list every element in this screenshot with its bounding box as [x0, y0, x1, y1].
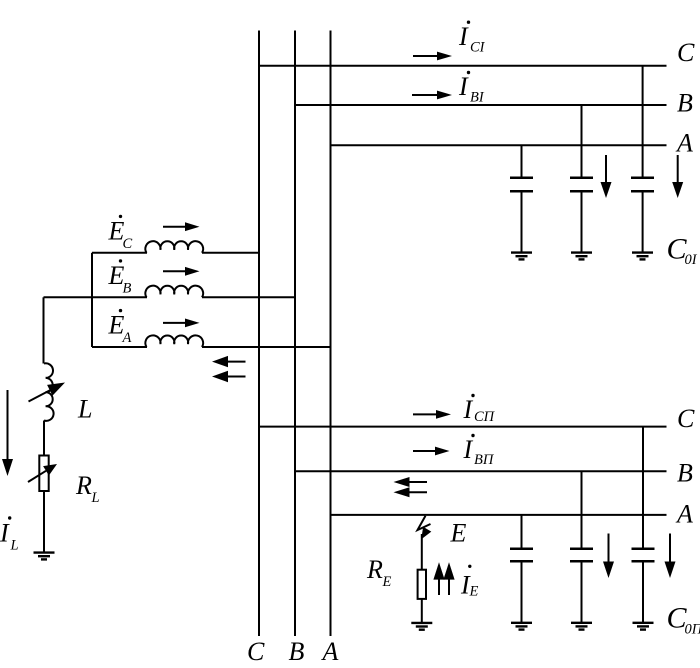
arrow current I_CI: [413, 52, 452, 61]
capacitor C0I phase C: [631, 66, 654, 252]
arrow return current upper (left-pointing, feeder II): [394, 477, 428, 487]
arrow capacitive current down (right of C cap, feeder II): [665, 534, 676, 579]
svg-text:A: A: [675, 500, 693, 529]
ground of capacitor C0II phase A: [511, 623, 532, 630]
wire phase B feeder II: [295, 470, 667, 472]
wire fault to resistor R_E: [421, 534, 423, 570]
resistor R_E: [418, 570, 426, 599]
svg-text:C: C: [677, 38, 695, 67]
svg-text:L: L: [91, 490, 100, 506]
svg-text:B: B: [123, 281, 132, 297]
svg-text:E: E: [382, 574, 392, 590]
wire phase A feeder I: [331, 144, 667, 146]
ground of capacitor C0I phase A: [511, 253, 532, 260]
svg-text:B: B: [677, 459, 693, 488]
svg-text:СП: СП: [474, 409, 496, 425]
label E_B: [108, 259, 132, 296]
svg-text:E: E: [450, 519, 467, 548]
resistor R_L (variable): [28, 456, 49, 492]
arrow current I_BII: [413, 447, 450, 456]
wire phase C feeder II: [259, 426, 667, 428]
arrow emf E_A: [163, 319, 200, 328]
label C_0I: [667, 233, 698, 268]
svg-text:I: I: [458, 72, 469, 101]
svg-text:I: I: [0, 519, 10, 548]
wire neutral to coil L: [43, 297, 45, 363]
wire coil L to resistor R_L: [43, 421, 45, 456]
label I_CI: [458, 21, 486, 56]
svg-text:0П: 0П: [685, 622, 700, 638]
winding E_B (source phase B): [44, 286, 296, 298]
arrow return current lower (left-pointing, feeder II): [394, 487, 428, 497]
label I_BII: [463, 434, 495, 468]
svg-text:B: B: [289, 637, 305, 666]
svg-text:C: C: [247, 637, 265, 666]
svg-text:ВП: ВП: [474, 452, 495, 468]
ground of R_L branch: [34, 553, 55, 560]
svg-text:B: B: [677, 89, 693, 118]
capacitor C0II phase C: [632, 427, 655, 623]
svg-text:I: I: [458, 22, 469, 51]
capacitor C0I phase B: [570, 105, 593, 252]
svg-text:A: A: [321, 637, 339, 666]
label E_C: [108, 215, 133, 252]
ground of capacitor C0I phase B: [571, 253, 592, 260]
arrow capacitive current down (between B and C caps, feeder I): [601, 155, 612, 198]
svg-text:L: L: [10, 538, 19, 554]
svg-text:R: R: [366, 555, 383, 584]
svg-text:C: C: [677, 404, 695, 433]
svg-text:C: C: [123, 236, 133, 252]
arrow current I_CII: [413, 410, 451, 419]
svg-text:R: R: [75, 471, 92, 500]
arrow return current lower (left-pointing, below winding A): [212, 371, 246, 382]
wire resistor R_E to ground: [421, 599, 423, 622]
ground of capacitor C0I phase C: [632, 253, 653, 260]
arrowhead of variable resistor R_L: [43, 464, 57, 476]
svg-text:E: E: [469, 584, 479, 600]
label I_L: [0, 516, 19, 553]
svg-text:A: A: [122, 330, 132, 346]
svg-text:0I: 0I: [685, 252, 698, 268]
winding E_A (source phase A): [92, 335, 331, 347]
label I_CII: [463, 394, 496, 425]
arrowhead of variable inductor L: [47, 383, 65, 396]
capacitor C0II phase B: [570, 471, 593, 622]
label R_E: [366, 555, 392, 590]
svg-text:I: I: [463, 395, 474, 424]
arrow emf E_B: [163, 267, 200, 276]
capacitor C0I phase A (wire from line A down): [510, 145, 533, 252]
arrow current I_E left (up): [433, 562, 444, 595]
fault lightning symbol E: [418, 516, 432, 540]
label I_E: [460, 565, 479, 600]
bus A (right vertical busbar): [330, 31, 332, 637]
arrow current I_E right (up): [443, 562, 454, 595]
arrow capacitive current down (between B and C caps, feeder II): [603, 534, 614, 579]
svg-text:L: L: [77, 395, 92, 424]
capacitor C0II phase A: [510, 515, 533, 622]
wire phase C feeder I: [259, 65, 667, 67]
label C_0II: [667, 602, 700, 638]
arrow emf E_C: [163, 222, 200, 231]
inductor L (arc suppression coil, variable): [29, 363, 54, 421]
arrow return current upper (left-pointing, below winding A): [212, 356, 246, 367]
ground of capacitor C0II phase B: [571, 623, 592, 630]
ground of capacitor C0II phase C: [633, 623, 654, 630]
label R_L: [75, 471, 100, 506]
wire phase B feeder I: [295, 104, 667, 106]
bus C (left vertical busbar): [258, 31, 260, 637]
arrow capacitive current down (right of C cap, feeder I): [672, 155, 683, 198]
svg-text:BI: BI: [470, 90, 485, 106]
wire phase A feeder II: [331, 514, 667, 516]
node neutral vertical wire: [91, 253, 93, 347]
label I_BI: [458, 71, 485, 106]
wire resistor R_L to ground: [43, 491, 45, 552]
winding E_C (source phase C): [92, 241, 259, 253]
arrow current I_BI: [412, 91, 452, 100]
ground of fault branch: [411, 623, 432, 630]
label E_A: [108, 309, 132, 346]
bus B (middle vertical busbar): [294, 31, 296, 637]
svg-text:A: A: [675, 129, 693, 158]
svg-text:I: I: [463, 435, 474, 464]
svg-text:CI: CI: [470, 40, 486, 56]
arrow current I_L (down, far left): [2, 390, 13, 476]
